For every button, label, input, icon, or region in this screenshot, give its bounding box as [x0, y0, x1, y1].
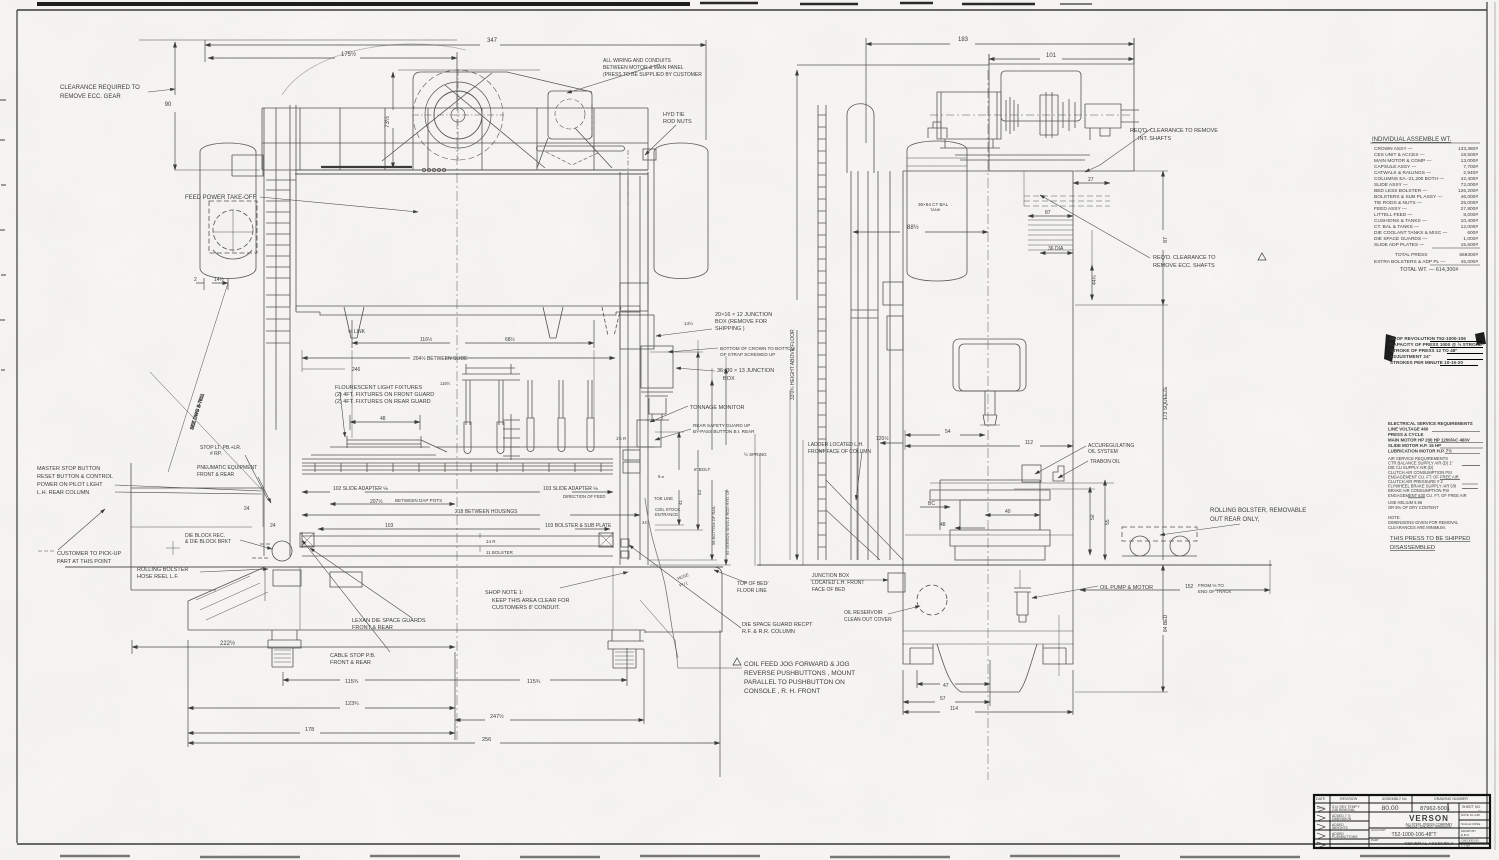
svg-text:PUSHBUTTONS: PUSHBUTTONS	[1332, 835, 1358, 839]
svg-text:FROM ℅ TO: FROM ℅ TO	[1198, 583, 1224, 588]
svg-text:ACCOUNT: ACCOUNT	[1371, 828, 1386, 832]
svg-text:INDIVIDUAL ASSEMBLE WT.: INDIVIDUAL ASSEMBLE WT.	[1372, 137, 1451, 143]
svg-text:42,400#: 42,400#	[1461, 176, 1479, 182]
svg-text:14½: 14½	[214, 276, 225, 283]
svg-text:8' BOLT: 8' BOLT	[694, 467, 711, 472]
svg-text:ROLLING BOLSTER: ROLLING BOLSTER	[137, 567, 188, 573]
svg-text:HOSE REEL L.F.: HOSE REEL L.F.	[137, 574, 179, 580]
svg-text:CROWN ASSY —: CROWN ASSY —	[1374, 146, 1413, 152]
svg-text:ROD NUTS: ROD NUTS	[663, 119, 692, 125]
svg-text:DIRECTION OF FEED: DIRECTION OF FEED	[563, 494, 605, 499]
svg-text:SCALE NONE: SCALE NONE	[1461, 822, 1480, 826]
svg-text:218 BETWEEN HOUSINGS: 218 BETWEEN HOUSINGS	[455, 509, 518, 515]
svg-text:ELECTRICAL SERVICE REQUIREMENT: ELECTRICAL SERVICE REQUIREMENTS	[1388, 421, 1473, 426]
svg-text:BOTTOM OF CROWN TO BOTTOM: BOTTOM OF CROWN TO BOTTOM	[720, 346, 795, 351]
svg-text:115¾: 115¾	[527, 679, 541, 685]
svg-text:54: 54	[945, 429, 951, 435]
svg-text:REQ'D. CLEARANCE TO: REQ'D. CLEARANCE TO	[1153, 255, 1216, 261]
svg-text:73½: 73½	[384, 116, 391, 128]
svg-text:6 ⌀: 6 ⌀	[658, 474, 664, 479]
svg-text:207½: 207½	[370, 498, 383, 505]
svg-text:41: 41	[678, 500, 683, 505]
svg-text:TANK: TANK	[930, 207, 941, 212]
svg-text:40: 40	[1005, 509, 1011, 515]
svg-text:FEED ASSY —: FEED ASSY —	[1374, 206, 1407, 212]
svg-text:25,000#: 25,000#	[1461, 200, 1479, 206]
svg-text:FRONT & REAR: FRONT & REAR	[197, 472, 235, 478]
svg-text:84 BED: 84 BED	[1163, 614, 1169, 632]
svg-text:PNEUMATIC EQUIPMENT: PNEUMATIC EQUIPMENT	[197, 465, 257, 471]
svg-text:CABLE STOP P.B.: CABLE STOP P.B.	[330, 653, 376, 659]
svg-text:TOTAL PRESS: TOTAL PRESS	[1395, 252, 1427, 258]
svg-text:CUSTOMERS 8' CONDUIT.: CUSTOMERS 8' CONDUIT.	[492, 605, 561, 611]
svg-text:TOE LINE: TOE LINE	[654, 496, 673, 501]
svg-text:CLEAN OUT COVER: CLEAN OUT COVER	[844, 617, 892, 623]
svg-text:REMOVE ECC. SHAFTS: REMOVE ECC. SHAFTS	[1153, 263, 1215, 269]
svg-text:(2) 4FT. FIXTURES ON REAR GUAR: (2) 4FT. FIXTURES ON REAR GUARD	[335, 399, 431, 405]
svg-text:152: 152	[1185, 584, 1194, 590]
svg-text:204½ BETWEEN SLIDE: 204½ BETWEEN SLIDE	[413, 355, 468, 362]
svg-text:2,940#: 2,940#	[1463, 170, 1478, 176]
svg-text:BOX (REMOVE FOR: BOX (REMOVE FOR	[715, 319, 767, 325]
svg-text:18,500#: 18,500#	[1461, 152, 1479, 158]
svg-text:CAPSULE ASSY —: CAPSULE ASSY —	[1374, 164, 1417, 170]
svg-text:24: 24	[244, 506, 250, 512]
svg-text:ROLLING BOLSTER, REMOVABLE: ROLLING BOLSTER, REMOVABLE	[1210, 508, 1306, 514]
svg-text:DIE COOLANT TANKS & MISC —: DIE COOLANT TANKS & MISC —	[1374, 230, 1448, 236]
svg-text:TRABON OIL: TRABON OIL	[1090, 459, 1121, 465]
svg-text:BY-PASS BUTTON B.I. REAR: BY-PASS BUTTON B.I. REAR	[693, 429, 755, 434]
svg-text:COLUMNS EA.-21,200 BOTH —: COLUMNS EA.-21,200 BOTH —	[1374, 176, 1444, 182]
svg-text:DIE SPACE GUARDS —: DIE SPACE GUARDS —	[1374, 236, 1427, 242]
svg-text:ASSEMBLY No: ASSEMBLY No	[1382, 797, 1407, 801]
svg-text:DATE: DATE	[1316, 797, 1326, 801]
svg-text:ENTRANCE: ENTRANCE	[655, 512, 678, 517]
svg-text:123¾: 123¾	[345, 701, 359, 707]
svg-text:LUBRICATION MOTOR H.P. 7: LUBRICATION MOTOR H.P. 7½	[1388, 449, 1452, 454]
svg-text:SLIDE ASSY —: SLIDE ASSY —	[1374, 182, 1408, 188]
svg-text:CES UNIT & ACCES —: CES UNIT & ACCES —	[1374, 152, 1425, 158]
svg-text:BED LESS BOLSTER —: BED LESS BOLSTER —	[1374, 188, 1428, 194]
svg-text:RESET BUTTON & CONTROL: RESET BUTTON & CONTROL	[37, 474, 113, 480]
svg-text:80.00: 80.00	[1381, 805, 1398, 812]
svg-text:90: 90	[165, 102, 172, 108]
svg-text:256: 256	[482, 737, 491, 743]
svg-text:68½: 68½	[505, 336, 516, 343]
svg-text:SLIDE MOTOR H.P. 15: SLIDE MOTOR H.P. 15 HP	[1388, 443, 1441, 448]
svg-text:FLOURESCENT LIGHT FIXTURES: FLOURESCENT LIGHT FIXTURES	[335, 385, 423, 391]
svg-text:OF STRAP SCREWED UP: OF STRAP SCREWED UP	[720, 352, 775, 357]
svg-text:REMOVE ECC. GEAR: REMOVE ECC. GEAR	[60, 94, 121, 100]
svg-text:45,000#: 45,000#	[1461, 259, 1479, 265]
svg-text:BC: BC	[928, 501, 935, 507]
svg-text:116½: 116½	[420, 336, 433, 343]
svg-text:LADDER LOCATED L.H.: LADDER LOCATED L.H.	[808, 442, 863, 448]
svg-text:OUT REAR ONLY,: OUT REAR ONLY,	[1210, 517, 1260, 523]
svg-text:173 SQUEEZE: 173 SQUEEZE	[1163, 386, 1169, 420]
svg-text:R.F. & R.R. COLUMN: R.F. & R.R. COLUMN	[742, 629, 795, 635]
svg-text:88½: 88½	[907, 224, 919, 231]
svg-text:SLIDE ADP PLATES —: SLIDE ADP PLATES —	[1374, 242, 1424, 248]
svg-text:PRESS & CYCLE: PRESS & CYCLE	[1388, 432, 1423, 437]
svg-text:TONNAGE MONITOR: TONNAGE MONITOR	[690, 405, 745, 411]
svg-text:103: 103	[385, 523, 394, 529]
svg-text:SHOP NOTE 1:: SHOP NOTE 1:	[485, 590, 524, 596]
svg-text:PARALLEL TO PUSHBUTTON ON: PARALLEL TO PUSHBUTTON ON	[744, 679, 845, 686]
svg-text:FRONT & REAR: FRONT & REAR	[330, 660, 371, 666]
svg-text:112: 112	[1025, 440, 1033, 446]
svg-text:WEIGHTS: WEIGHTS	[1332, 826, 1349, 830]
svg-text:KEEP THIS AREA CLEAR FOR: KEEP THIS AREA CLEAR FOR	[492, 598, 569, 604]
svg-text:7-7-86: 7-7-86	[1461, 844, 1470, 848]
svg-text:℅ LINK: ℅ LINK	[348, 329, 366, 335]
svg-text:102 SLIDE ADAPTER ℅: 102 SLIDE ADAPTER ℅	[333, 486, 388, 492]
svg-text:E.B.O.: E.B.O.	[1461, 833, 1470, 837]
svg-text:& DIE BLOCK BRKT: & DIE BLOCK BRKT	[185, 539, 231, 545]
svg-text:CUSTOMER TO PICK-UP: CUSTOMER TO PICK-UP	[57, 551, 122, 557]
svg-text:44¼: 44¼	[1092, 274, 1098, 285]
svg-text:33'0¾ HEIGHT ABOVE FLOOR: 33'0¾ HEIGHT ABOVE FLOOR	[790, 329, 796, 400]
svg-text:№ OF REVOLUTION T52-1000-106: № OF REVOLUTION T52-1000-106	[1390, 336, 1466, 341]
svg-text:BOLSTERS & SUB PL ASSY —: BOLSTERS & SUB PL ASSY —	[1374, 194, 1442, 200]
svg-text:2: 2	[194, 277, 197, 283]
svg-text:DIE SPACE GUARD RECPT: DIE SPACE GUARD RECPT	[742, 622, 813, 628]
svg-text:REVISION: REVISION	[1340, 797, 1358, 801]
svg-text:50: 50	[1090, 514, 1096, 520]
svg-text:15,600#: 15,600#	[1461, 242, 1479, 248]
svg-text:7,700#: 7,700#	[1463, 164, 1478, 170]
svg-text:BOX: BOX	[723, 376, 735, 382]
svg-text:HYD TIE: HYD TIE	[663, 112, 685, 118]
svg-text:STROKES PER MINUTE 10-15-20: STROKES PER MINUTE 10-15-20	[1390, 360, 1463, 365]
svg-text:175½: 175½	[341, 51, 356, 58]
svg-text:ADJUSTMENT: ADJUSTMENT 24"	[1390, 354, 1431, 359]
svg-text:569300#: 569300#	[1459, 252, 1478, 258]
svg-text:48: 48	[380, 416, 386, 422]
svg-text:MASTER STOP BUTTON: MASTER STOP BUTTON	[37, 466, 100, 472]
svg-text:133,380#: 133,380#	[1458, 146, 1478, 152]
svg-text:24: 24	[270, 523, 276, 529]
svg-text:11 BOLSTER: 11 BOLSTER	[486, 550, 514, 555]
svg-text:120½: 120½	[876, 435, 889, 442]
svg-text:PART AT THIS POINT: PART AT THIS POINT	[57, 559, 112, 565]
svg-text:48: 48	[940, 522, 946, 528]
svg-text:10,400#: 10,400#	[1461, 218, 1479, 224]
svg-text:FEED POWER TAKE-OFF: FEED POWER TAKE-OFF	[185, 195, 256, 201]
svg-text:OIL RESERVOIR: OIL RESERVOIR	[844, 610, 883, 616]
svg-text:CT. BAL & TANKS —: CT. BAL & TANKS —	[1374, 224, 1419, 230]
svg-text:CONSOLE , R. H. FRONT: CONSOLE , R. H. FRONT	[744, 688, 820, 695]
svg-text:14 R: 14 R	[486, 539, 496, 544]
svg-text:55: 55	[1105, 519, 1111, 525]
svg-text:THIS PRESS TO BE SHIPPED: THIS PRESS TO BE SHIPPED	[1390, 536, 1470, 542]
svg-text:87: 87	[1045, 210, 1051, 216]
svg-text:65 VERSON SINGLE ROD HYD. UP: 65 VERSON SINGLE ROD HYD. UP	[725, 489, 730, 555]
svg-text:LOCATED L.H. FRONT: LOCATED L.H. FRONT	[812, 580, 864, 586]
svg-text:TOTAL WT. — 614,300#: TOTAL WT. — 614,300#	[1400, 267, 1458, 273]
svg-text:53: 53	[697, 490, 702, 495]
svg-text:600#: 600#	[1467, 230, 1478, 236]
svg-text:246: 246	[352, 367, 361, 373]
svg-text:LITTELL FEED —: LITTELL FEED —	[1374, 212, 1413, 218]
svg-text:CATWALK & RAILINGS —: CATWALK & RAILINGS —	[1374, 170, 1431, 176]
svg-text:FACE OF BED: FACE OF BED	[812, 587, 845, 593]
svg-text:JUNCTION BOX: JUNCTION BOX	[812, 573, 850, 579]
svg-text:CUSHIONS & TANKS —: CUSHIONS & TANKS —	[1374, 218, 1427, 224]
svg-text:DRAWING NUMBER: DRAWING NUMBER	[1434, 797, 1468, 801]
svg-text:REAR SAFETY GUARD UP: REAR SAFETY GUARD UP	[693, 423, 750, 428]
svg-text:BETWEEN MOTOR & MAIN PANEL: BETWEEN MOTOR & MAIN PANEL	[603, 65, 684, 71]
svg-text:27: 27	[1088, 177, 1094, 183]
svg-text:T52-1000-106-48"T: T52-1000-106-48"T	[1391, 832, 1437, 838]
svg-text:STROKE OF PRESS 12 TO: STROKE OF PRESS 12 TO 48"	[1390, 348, 1458, 353]
svg-text:101: 101	[1046, 53, 1057, 59]
svg-text:1½ R: 1½ R	[616, 436, 626, 441]
svg-text:GIB REMOVAL: GIB REMOVAL	[1332, 808, 1355, 812]
svg-text:DIMENSION: DIMENSION	[1332, 817, 1352, 821]
svg-text:ENGAGEMENT 630 CU. FT. OF F: ENGAGEMENT 630 CU. FT. OF FREE AIR	[1388, 493, 1467, 498]
svg-text:OR 5% OF DRY CONTENT: OR 5% OF DRY CONTENT	[1388, 505, 1439, 510]
svg-text:87962-5001: 87962-5001	[1420, 806, 1450, 812]
svg-text:INT. SHAFTS: INT. SHAFTS	[1138, 136, 1171, 142]
svg-text:OIL SYSTEM: OIL SYSTEM	[1088, 449, 1118, 455]
svg-text:36 DIA: 36 DIA	[1048, 246, 1064, 252]
svg-text:58 BOTTOM OF RAIL: 58 BOTTOM OF RAIL	[711, 505, 716, 545]
svg-text:72,000#: 72,000#	[1461, 182, 1479, 188]
svg-text:27,800#: 27,800#	[1461, 206, 1479, 212]
svg-text:247½: 247½	[490, 713, 504, 720]
svg-text:103 BOLSTER & SUB PLATE: 103 BOLSTER & SUB PLATE	[545, 523, 612, 529]
svg-text:COIL FEED JOG FORWARD & JO: COIL FEED JOG FORWARD & JOG	[744, 661, 850, 668]
svg-text:TOP OF BED⁄: TOP OF BED⁄	[737, 581, 769, 587]
svg-text:DALLAS - CHICAGO - DANIELSON: DALLAS - CHICAGO - DANIELSON	[1407, 824, 1452, 828]
svg-text:TIE RODS & NUTS —: TIE RODS & NUTS —	[1374, 200, 1422, 206]
svg-text:EXTRA BOLSTERS & ADP PL —: EXTRA BOLSTERS & ADP PL —	[1374, 259, 1445, 265]
svg-text:BETWEEN DAP POTS: BETWEEN DAP POTS	[395, 498, 442, 503]
svg-text:(2) 4FT. FIXTURES ON FRONT GUA: (2) 4FT. FIXTURES ON FRONT GUARD	[335, 392, 434, 398]
svg-text:FLOOR LINE: FLOOR LINE	[737, 588, 767, 594]
svg-text:8,000#: 8,000#	[1463, 212, 1478, 218]
svg-text:END OF TRACK: END OF TRACK	[1198, 589, 1231, 594]
svg-text:126,200#: 126,200#	[1458, 188, 1478, 194]
svg-text:CHECKED BY: CHECKED BY	[1461, 839, 1479, 843]
svg-text:MAIN MOTOR HP 200 HP 1200/AC: MAIN MOTOR HP 200 HP 1200/AC 460V	[1388, 438, 1470, 443]
svg-text:115¾: 115¾	[345, 679, 359, 685]
svg-text:SHIPPING ): SHIPPING )	[715, 326, 745, 332]
svg-text:DISASSEMBLED: DISASSEMBLED	[1390, 545, 1435, 551]
svg-text:1,000#: 1,000#	[1463, 236, 1478, 242]
svg-text:178: 178	[305, 727, 314, 733]
svg-text:POWER ON PILOT LIGHT: POWER ON PILOT LIGHT	[37, 482, 103, 488]
svg-text:46,000#: 46,000#	[1461, 194, 1479, 200]
svg-text:222½: 222½	[220, 640, 235, 647]
svg-text:24: 24	[642, 520, 647, 525]
svg-text:13,000#: 13,000#	[1461, 158, 1479, 164]
svg-text:½ SPRING: ½ SPRING	[744, 451, 767, 457]
svg-text:183: 183	[958, 37, 969, 43]
svg-text:—: —	[1478, 808, 1482, 812]
svg-text:57: 57	[940, 696, 946, 702]
svg-text:OIL PUMP & MOTOR: OIL PUMP & MOTOR	[1100, 585, 1153, 591]
svg-text:# RP.: # RP.	[210, 451, 222, 457]
svg-text:REVERSE PUSHBUTTONS , MOUNT: REVERSE PUSHBUTTONS , MOUNT	[744, 670, 855, 677]
svg-text:347: 347	[487, 38, 498, 44]
svg-text:36×30 × 13 JUNCTION: 36×30 × 13 JUNCTION	[717, 368, 774, 374]
svg-text:116½: 116½	[440, 381, 451, 386]
svg-text:GENERAL ASSEMBLY: GENERAL ASSEMBLY	[1404, 841, 1454, 847]
svg-text:L.H. REAR COLUMN: L.H. REAR COLUMN	[37, 490, 89, 496]
svg-text:LINE VOLTAGE 460: LINE VOLTAGE 460	[1388, 427, 1429, 432]
svg-text:12,000#: 12,000#	[1461, 224, 1479, 230]
svg-text:47: 47	[943, 683, 949, 689]
svg-text:DATE 10-4-85: DATE 10-4-85	[1461, 813, 1480, 817]
svg-text:LEXAN DIE SPACE GUARDS: LEXAN DIE SPACE GUARDS	[352, 618, 426, 624]
svg-text:CLEARANCES ARE MINIMUM.: CLEARANCES ARE MINIMUM.	[1388, 525, 1446, 530]
svg-text:103 SLIDE ADAPTER ℅: 103 SLIDE ADAPTER ℅	[543, 486, 598, 492]
svg-text:114: 114	[950, 706, 958, 712]
svg-text:87: 87	[1163, 237, 1169, 243]
svg-text:CLEARANCE REQUIRED TO: CLEARANCE REQUIRED TO	[60, 85, 140, 91]
svg-text:PART: PART	[1371, 838, 1379, 842]
svg-text:REQ'D. CLEARANCE TO REMOVE: REQ'D. CLEARANCE TO REMOVE	[1130, 128, 1218, 134]
svg-text:MAIN MOTOR & COMP —: MAIN MOTOR & COMP —	[1374, 158, 1432, 164]
svg-text:20×16 × 12 JUNCTION: 20×16 × 12 JUNCTION	[715, 312, 772, 318]
svg-text:ALL WIRING AND CONDUITS: ALL WIRING AND CONDUITS	[603, 58, 672, 64]
svg-text:14½: 14½	[684, 320, 693, 326]
